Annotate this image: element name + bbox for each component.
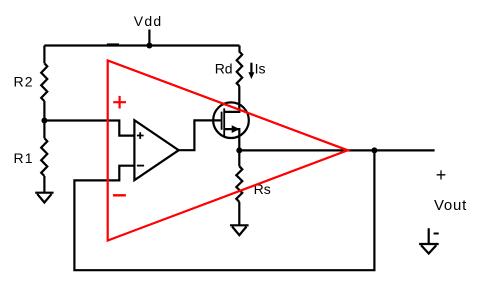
transistor M1 source arrow <box>232 125 240 133</box>
resistor R1 <box>41 138 47 176</box>
svg-text:Vdd: Vdd <box>134 13 163 29</box>
transistor M1 channel bar <box>223 108 225 136</box>
resistor Rs <box>236 166 242 202</box>
resistor Rd <box>237 46 243 87</box>
red plus terminal mark <box>113 96 126 109</box>
node source junction <box>236 147 242 153</box>
current arrow Is head <box>248 72 254 79</box>
transistor M1 gate bar <box>221 112 223 130</box>
wire Rs bottom lead <box>238 202 240 225</box>
svg-text:Is: Is <box>255 61 266 77</box>
transistor M1 body <box>213 102 249 138</box>
red minus terminal mark <box>113 194 126 196</box>
wire R2 to R1 <box>43 101 45 138</box>
op-amp plus pin mark <box>137 132 144 139</box>
svg-text:R1: R1 <box>14 150 34 166</box>
wire left rail top lead <box>43 46 45 64</box>
wire op-amp output to gate <box>179 120 221 150</box>
current arrow Is <box>250 63 252 73</box>
wire output node <box>239 149 434 151</box>
resistor R2 <box>41 63 47 101</box>
wire inverting input feedback <box>74 150 374 270</box>
svg-text:Rd: Rd <box>215 61 233 77</box>
wire Rs top lead <box>238 150 240 166</box>
ground below R1 <box>35 193 53 203</box>
op-amp U1 <box>134 120 178 180</box>
node R2/R1 junction <box>41 118 47 124</box>
label Vout minus <box>434 233 439 235</box>
svg-text:R2: R2 <box>14 74 34 90</box>
wire Vdd stub <box>148 30 150 46</box>
wire top rail Vdd <box>44 44 239 46</box>
svg-text:+: + <box>436 165 447 185</box>
op-amp minus pin mark <box>137 165 144 167</box>
amplifier outline red triangle <box>108 61 348 241</box>
transistor M1 drain lead <box>224 86 239 112</box>
wire noninverting input <box>44 121 134 136</box>
ground below Rs <box>230 225 249 235</box>
wire top rail thick overlap segment <box>107 43 119 45</box>
wire R1 bottom lead <box>43 176 45 193</box>
transistor M1 source lead <box>224 129 239 150</box>
svg-text:Vout: Vout <box>434 197 467 214</box>
node Vdd tap <box>146 43 152 49</box>
node output junction <box>371 147 377 153</box>
ground Vout reference <box>419 228 439 253</box>
